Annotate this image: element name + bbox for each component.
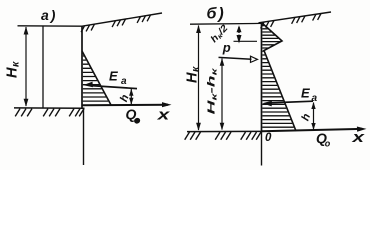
dimension line Hk-hk (fig b) xyxy=(221,59,223,130)
top ground line (fig b) xyxy=(190,22,262,25)
arrowhead down h (fig a) xyxy=(129,98,133,105)
ground line (fig b) xyxy=(187,130,262,132)
force p arrow line (fig b) xyxy=(219,57,252,59)
wall left edge (fig a) xyxy=(42,26,44,108)
force Ea arrow line (fig a) xyxy=(91,86,137,89)
svg-text:б): б) xyxy=(207,6,224,23)
ground hatching (fig a) xyxy=(15,109,84,117)
ground line (fig a) xyxy=(14,107,85,109)
ground surface slope (fig b) xyxy=(259,12,332,23)
svg-text:х: х xyxy=(351,129,365,146)
force Ea arrowhead (fig a) xyxy=(83,82,93,88)
wall below ground (fig a) xyxy=(83,108,85,165)
svg-text:0: 0 xyxy=(265,132,272,144)
ground surface slope (fig a) xyxy=(82,13,162,26)
slope hatching (fig a) xyxy=(81,15,150,32)
svg-text:E: E xyxy=(109,69,118,84)
pressure diagram hypotenuse (fig a) xyxy=(82,51,111,105)
x axis (fig b) xyxy=(262,129,362,131)
dimension line h (fig b) xyxy=(313,103,315,130)
dimension line Hk (fig a) xyxy=(25,27,27,106)
extension line at load level (fig b) xyxy=(234,40,258,42)
arrowhead up Hk (fig b) xyxy=(196,25,201,33)
wall line (fig b) xyxy=(261,23,263,133)
svg-text:а: а xyxy=(312,93,318,104)
arrowhead down Hk-hk (fig b) xyxy=(220,123,225,131)
arrowhead up hk/2 (fig b) xyxy=(237,25,242,32)
wall top edge (fig a) xyxy=(18,25,84,27)
force Ea arrowhead (fig b) xyxy=(262,101,272,107)
pressure diagram hatching (fig a) xyxy=(83,56,108,101)
arrowhead up Hk (fig a) xyxy=(24,27,29,35)
svg-text:а): а) xyxy=(41,7,56,23)
arrowhead up Hk-hk (fig b) xyxy=(220,58,225,65)
wall right edge (fig a) xyxy=(81,26,83,108)
arrowhead down Hk (fig a) xyxy=(24,99,29,107)
label Q0 subscript (fig a) xyxy=(133,117,141,125)
svg-text:р: р xyxy=(222,40,231,55)
force Ea arrow line (fig b) xyxy=(270,101,313,103)
arrowhead down Hk (fig b) xyxy=(196,123,201,131)
svg-text:E: E xyxy=(301,86,310,101)
x axis (fig a) xyxy=(82,104,168,107)
x axis arrowhead (fig a) xyxy=(162,102,172,107)
arrowhead up h (fig b) xyxy=(311,102,315,109)
x axis arrowhead (fig b) xyxy=(357,127,367,132)
ground hatching (fig b) xyxy=(185,132,261,140)
wall below ground (fig b) xyxy=(261,132,263,166)
pressure diagram hatching (fig b) xyxy=(262,26,294,128)
arrowhead down hk/2 (fig b) xyxy=(237,35,242,44)
arrowhead up h (fig a) xyxy=(129,89,133,96)
pressure diagram outline (fig b) xyxy=(262,23,297,132)
svg-text:а: а xyxy=(121,76,127,87)
arrowhead down h (fig b) xyxy=(311,123,315,130)
svg-text:о: о xyxy=(325,138,331,148)
dimension line h (fig a) xyxy=(130,89,132,105)
dimension line Hk (fig b) xyxy=(198,26,200,131)
force p open arrowhead (fig b) xyxy=(251,56,258,62)
svg-text:х: х xyxy=(156,107,170,124)
slope hatching (fig b) xyxy=(261,14,321,29)
dimension line hk/2 dashed (fig b) xyxy=(238,27,240,40)
